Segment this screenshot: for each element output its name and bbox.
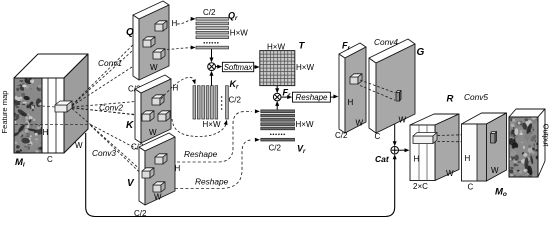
attention matrix T grid (260, 51, 295, 86)
wire matmul2 to reshape (281, 96, 289, 98)
dashed path V to V_r top (Reshape) (177, 112, 252, 163)
svg-text:Conv1: Conv1 (98, 58, 122, 68)
Q_r reshaped bars (196, 18, 229, 49)
svg-text:H×W: H×W (267, 42, 285, 51)
svg-text:H: H (414, 155, 420, 164)
svg-text:Reshape: Reshape (295, 93, 328, 102)
V_r reshaped bars (261, 110, 295, 141)
svg-text:H: H (465, 154, 471, 163)
svg-text:W: W (356, 119, 364, 128)
svg-text:Feature map: Feature map (0, 90, 9, 133)
svg-text:G: G (417, 47, 425, 58)
svg-text:Conv5: Conv5 (464, 92, 488, 102)
G slab (369, 39, 415, 133)
svg-text:H×W: H×W (296, 120, 314, 129)
dashed arrow Q to Q_r bottom (167, 48, 191, 50)
svg-text:Reshape: Reshape (195, 177, 229, 187)
svg-text:Reshape: Reshape (184, 149, 218, 159)
svg-text:H: H (348, 98, 354, 107)
wire T to matmul2 (276, 86, 278, 90)
K_r reshaped bars (193, 86, 228, 119)
conv3 dashed fan (72, 109, 154, 187)
wire V_r to matmul2 (276, 104, 278, 110)
dashed path V to V_r bottom (Reshape) (175, 140, 252, 189)
svg-text:H×W: H×W (230, 29, 248, 38)
conv2 dashed fan (72, 100, 160, 117)
svg-text:Q: Q (126, 27, 134, 38)
dashed lines F_r cube to G box (360, 80, 395, 93)
svg-text:H: H (175, 164, 181, 173)
conv1 dashed fan (72, 29, 152, 106)
svg-text:Conv2: Conv2 (99, 103, 123, 113)
svg-text:C: C (375, 132, 381, 141)
wire reshape to F_r slab (330, 96, 335, 98)
R box (410, 114, 459, 181)
wire softmax to T (254, 66, 257, 68)
svg-text:C/2: C/2 (203, 8, 216, 17)
concat operator (Cat) (391, 146, 399, 154)
svg-text:H×W: H×W (203, 120, 221, 129)
matmul operator 2 (273, 93, 281, 101)
reshape box (293, 92, 331, 102)
F_r slab (339, 43, 366, 133)
output cube (506, 109, 545, 178)
svg-text:C/2: C/2 (335, 131, 348, 140)
svg-text:W: W (446, 169, 454, 178)
V slab (139, 133, 175, 205)
sliver tensor on R (413, 133, 437, 144)
dashed line box to left (16, 104, 55, 107)
svg-text:Conv3: Conv3 (92, 148, 116, 158)
svg-text:W: W (154, 193, 162, 202)
svg-text:C: C (468, 183, 474, 192)
dashed arrow K to K_r bottom (172, 119, 226, 137)
svg-text:W: W (150, 63, 158, 72)
wire concat to R (399, 149, 407, 151)
wire G to concat (394, 124, 396, 143)
svg-text:Output: Output (542, 124, 550, 148)
svg-text:K: K (126, 120, 134, 131)
dashed lines R sliver to M_o box (438, 134, 490, 136)
svg-text:C/2: C/2 (269, 144, 282, 153)
svg-text:H×W: H×W (296, 63, 314, 72)
dashed arrow Q to Q_r top (177, 20, 191, 24)
feedback wire M_i to concat (86, 133, 395, 217)
svg-text:C: C (47, 155, 53, 164)
dashed line inside cube (15, 124, 90, 126)
svg-text:W: W (491, 166, 499, 175)
svg-text:2×C: 2×C (413, 182, 428, 191)
svg-text:Conv4: Conv4 (374, 37, 398, 47)
svg-text:W: W (399, 116, 407, 125)
svg-text:H: H (172, 19, 178, 28)
svg-text:Cat: Cat (375, 154, 390, 164)
wire K_r to matmul1 (211, 74, 213, 86)
matmul operator 1 (208, 63, 216, 71)
svg-text:H: H (43, 128, 49, 137)
K slab (135, 75, 171, 143)
wire matmul1 to softmax (216, 66, 220, 68)
dashed arrow K to K_r top (161, 77, 194, 99)
feature map cube M_i (10, 54, 88, 154)
M_o box (462, 113, 507, 181)
wire Q_r to matmul1 (211, 49, 213, 59)
svg-text:W: W (75, 141, 83, 150)
svg-text:R: R (447, 94, 454, 105)
sample box on M_i (55, 101, 72, 112)
svg-text:Softmax: Softmax (224, 63, 254, 72)
softmax box (222, 62, 253, 71)
Q slab (133, 1, 169, 80)
small box on M_o (491, 132, 497, 144)
svg-text:W: W (149, 128, 157, 137)
small box on G (396, 91, 401, 102)
svg-text:C/2: C/2 (229, 96, 242, 105)
